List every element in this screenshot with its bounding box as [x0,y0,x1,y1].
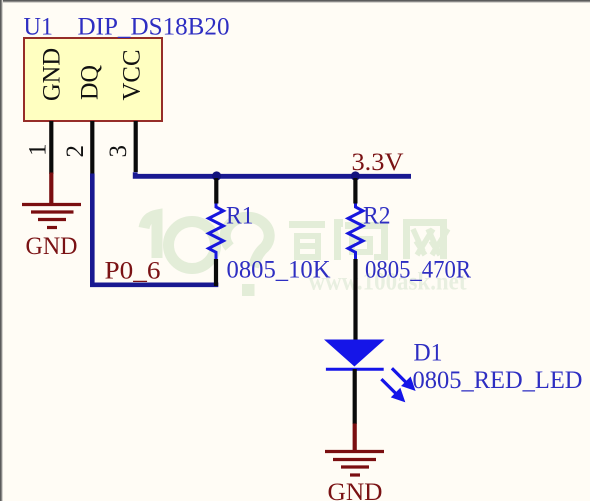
svg-text:GND: GND [328,479,383,501]
junction node at R2 [351,171,360,180]
watermark logo 100 [144,215,269,296]
svg-text:0805_RED_LED: 0805_RED_LED [413,367,583,394]
left window edge [0,0,3,501]
ground GND2 stem [353,424,357,452]
wire R1 to P0_6 [214,259,218,286]
LED D1 emission arrow 2 [381,379,404,401]
svg-text:1: 1 [25,144,52,157]
LED D1 cathode bar [326,368,384,371]
wire D1 to ground [353,369,357,424]
svg-text:3.3V: 3.3V [352,149,404,176]
LED D1 triangle [324,340,385,367]
svg-text:VCC: VCC [119,50,146,101]
wire junction to R2 [353,178,357,204]
svg-text:P0_6: P0_6 [105,258,161,285]
svg-text:U1: U1 [24,13,54,40]
svg-text:0805_470R: 0805_470R [365,257,471,284]
svg-text:2: 2 [62,145,89,158]
U1 pin 2 [90,121,94,174]
wire DQ vertical [90,174,95,285]
resistor R1 [209,204,224,260]
svg-text:DQ: DQ [77,65,104,100]
svg-text:3: 3 [105,145,132,158]
wire P0_6 horizontal [90,282,218,287]
U1 pin 3 [134,121,138,172]
wire VCC corner to 3.3V rail [135,172,411,176]
wire junction to R1 [214,178,218,204]
watermark text bai [289,221,325,260]
watermark text wen [334,219,388,260]
resistor R2 [348,204,363,260]
svg-text:GND: GND [39,48,66,101]
svg-text:D1: D1 [414,339,443,366]
ground GND1 bars [22,205,81,228]
svg-text:GND: GND [26,233,78,260]
LED D1 emission arrow 1 [392,368,415,390]
ground GND1 stem [49,173,53,205]
svg-text:DIP_DS18B20: DIP_DS18B20 [78,13,230,40]
watermark text wang [403,219,448,259]
ground GND2 bars [325,452,384,476]
component U1 body [24,38,162,121]
U1 pin 1 [49,121,53,174]
junction node at R1 [212,171,221,180]
top window edge [0,0,590,3]
svg-text:0805_10K: 0805_10K [227,257,331,284]
svg-text:R2: R2 [363,202,391,229]
svg-text:R1: R1 [226,202,254,229]
wire R2 to D1 [353,259,357,340]
